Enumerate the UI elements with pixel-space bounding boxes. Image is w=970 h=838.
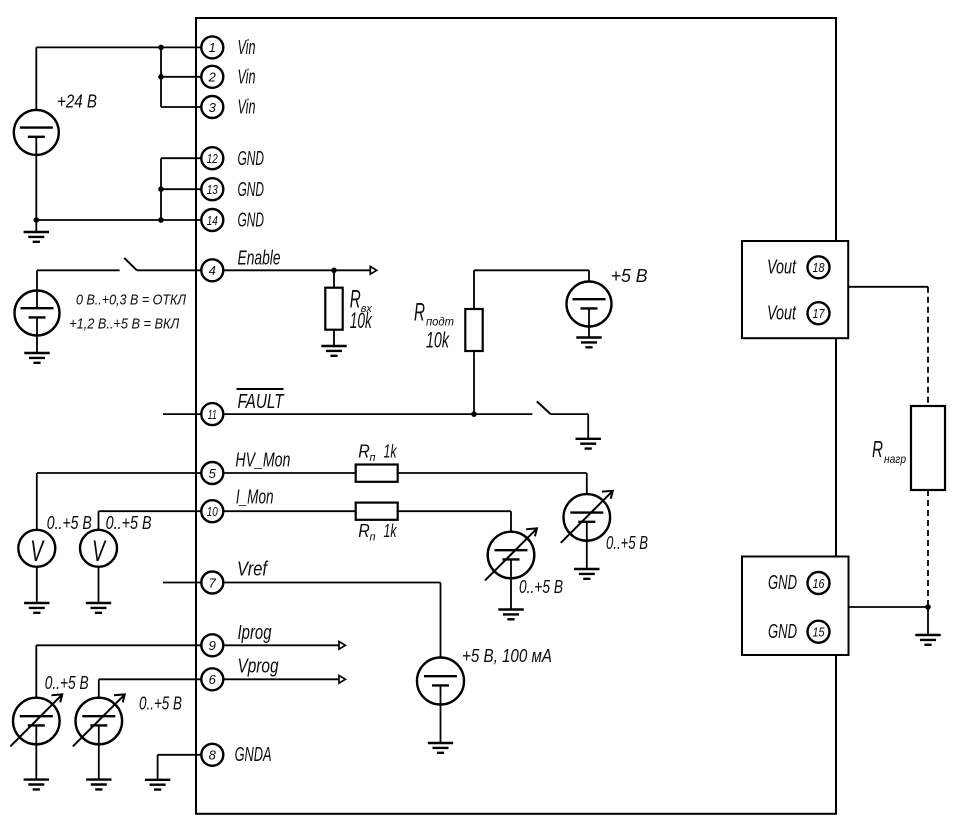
- resistor Rpodt 10k: [414, 299, 483, 353]
- Vout terminal box: [742, 241, 848, 338]
- svg-text:10: 10: [207, 504, 219, 519]
- ground under +24V source: [24, 232, 49, 242]
- pin 12 GND: [201, 147, 264, 170]
- resistor Rvx 10k: [325, 286, 372, 334]
- wire enable source bottom to ground: [36, 317, 38, 353]
- svg-text:GND: GND: [768, 572, 797, 594]
- node junction load ground: [925, 604, 931, 610]
- svg-text:FAULT: FAULT: [238, 391, 285, 413]
- wire Rvx to ground: [333, 330, 335, 346]
- svg-text:0 В..+0,3 В = ОТКЛ: 0 В..+0,3 В = ОТКЛ: [76, 291, 187, 308]
- svg-text:+1,2 В..+5 В = ВКЛ: +1,2 В..+5 В = ВКЛ: [69, 315, 180, 332]
- svg-text:9: 9: [209, 638, 216, 653]
- wire FAULT switch to ground: [551, 414, 589, 439]
- svg-text:1k: 1k: [384, 442, 398, 462]
- svg-text:0..+5 В: 0..+5 В: [139, 694, 182, 714]
- ground under Rvx: [321, 346, 346, 356]
- pin 9 Iprog: [201, 622, 271, 657]
- svg-text:Vin: Vin: [238, 66, 256, 88]
- pin 4 Enable: [201, 248, 280, 282]
- wire Rpodt bottom to FAULT net: [473, 351, 475, 414]
- pin 3 Vin: [201, 96, 255, 119]
- wire adjustable Vprog source to ground: [98, 725, 100, 779]
- pin 13 GND: [201, 178, 264, 201]
- dashed wire load upper: [927, 287, 929, 406]
- wire GNDA to ground: [158, 755, 202, 780]
- resistor Rnagr load: [872, 406, 945, 490]
- wire pullup top rail: [474, 270, 589, 309]
- svg-text:Vout: Vout: [767, 256, 797, 278]
- svg-text:нагр: нагр: [884, 452, 906, 466]
- switch S2 blade: [537, 401, 551, 414]
- pin 5 HV_Mon: [201, 449, 290, 484]
- wire HV_Mon to Rp1: [223, 472, 355, 474]
- ground under V1: [24, 603, 49, 613]
- svg-text:Vin: Vin: [238, 97, 256, 119]
- svg-text:5: 5: [209, 466, 217, 481]
- svg-text:GND: GND: [238, 148, 265, 170]
- voltage source +5 V pullup: [567, 266, 648, 327]
- svg-text:1: 1: [209, 40, 216, 55]
- arrow Iprog out: [339, 642, 345, 650]
- wire adjustable I source to ground: [510, 559, 512, 609]
- svg-text:14: 14: [207, 213, 218, 228]
- svg-text:0..+5 В: 0..+5 В: [519, 577, 563, 597]
- svg-text:Vprog: Vprog: [238, 656, 279, 678]
- wire I_Mon to Rp2: [223, 510, 355, 512]
- arrow Vprog out: [339, 676, 345, 684]
- ground under enable source: [24, 353, 49, 363]
- wire GND box to load ground: [849, 607, 929, 635]
- svg-text:18: 18: [813, 260, 826, 275]
- wire switch to pin 4: [137, 269, 202, 271]
- wire Iprog to adjustable source 3: [36, 645, 202, 717]
- svg-text:6: 6: [209, 672, 217, 687]
- pin 7 Vref: [201, 558, 269, 593]
- pin 16 GND: [768, 572, 830, 594]
- wire I_Mon to voltmeter V2: [99, 511, 202, 530]
- svg-text:15: 15: [813, 625, 826, 640]
- wire +24V bottom to GND bus: [36, 137, 202, 232]
- svg-text:Vout: Vout: [767, 302, 797, 324]
- wire Vprog to arrow: [223, 678, 339, 680]
- wire Rp1 to adjustable source: [398, 473, 587, 514]
- svg-text:Iprog: Iprog: [238, 622, 272, 644]
- svg-text:HV_Mon: HV_Mon: [235, 449, 290, 471]
- pin 8 GNDA: [201, 744, 271, 766]
- svg-text:0..+5 В: 0..+5 В: [606, 533, 648, 553]
- voltmeter V1: [18, 513, 92, 568]
- pin 14 GND: [201, 209, 264, 232]
- voltmeter V2: [80, 513, 152, 568]
- svg-text:0..+5 В: 0..+5 В: [47, 513, 92, 533]
- node junction Vin bus pin2: [158, 74, 164, 80]
- ground under V2: [86, 603, 111, 613]
- svg-text:V: V: [30, 535, 45, 568]
- IC body U1: [196, 18, 836, 814]
- wire Vref to +5V 100mA source: [223, 583, 440, 677]
- svg-text:V: V: [92, 535, 107, 568]
- adjustable source 0..+5V for HV_Mon: [561, 491, 648, 553]
- svg-text:+5 В, 100 мА: +5 В, 100 мА: [462, 646, 552, 666]
- node junction Rpodt FAULT: [471, 411, 477, 417]
- svg-text:GNDA: GNDA: [235, 744, 272, 766]
- svg-text:1k: 1k: [384, 521, 398, 541]
- svg-text:0..+5 В: 0..+5 В: [106, 513, 152, 533]
- svg-text:I_Mon: I_Mon: [236, 487, 274, 509]
- svg-text:Vref: Vref: [237, 558, 269, 580]
- GND terminal box: [742, 557, 849, 656]
- pin 1 Vin: [201, 36, 255, 59]
- wire V1 to ground: [36, 567, 38, 603]
- svg-text:п: п: [370, 531, 376, 543]
- svg-text:+24 В: +24 В: [57, 91, 97, 111]
- svg-text:2: 2: [208, 70, 217, 85]
- svg-text:GND: GND: [238, 179, 265, 201]
- wire V2 to ground: [98, 567, 100, 603]
- pin 2 Vin: [201, 66, 255, 89]
- svg-text:R: R: [358, 521, 370, 541]
- svg-text:Enable: Enable: [238, 248, 281, 270]
- svg-text:GND: GND: [238, 210, 265, 232]
- wire Vout to load: [848, 286, 928, 288]
- node junction GND bus pin13: [158, 186, 164, 192]
- switch S1 blade: [124, 258, 137, 270]
- wire Enable net to arrow: [223, 269, 370, 271]
- svg-text:13: 13: [207, 182, 219, 197]
- wire adjustable Iprog source to ground: [35, 725, 37, 779]
- svg-text:+5 В: +5 В: [611, 266, 648, 286]
- wire +5V 100mA source to ground: [440, 685, 442, 743]
- ground under +5V source: [576, 338, 601, 348]
- node junction GND bus pin14: [158, 217, 164, 223]
- wire Iprog to arrow: [223, 644, 339, 646]
- pin 17 Vout: [767, 302, 830, 324]
- dashed wire load lower: [927, 490, 929, 607]
- ground under adjustable I source: [498, 610, 523, 620]
- ground under +5V 100mA source: [428, 743, 453, 753]
- FAULT overline: [237, 388, 284, 390]
- pin 10 I_Mon: [201, 487, 273, 523]
- svg-text:17: 17: [813, 306, 826, 321]
- adjustable source 0..+5V for Iprog: [10, 673, 88, 746]
- pin 15 GND: [768, 621, 830, 643]
- voltage source enable control: [15, 291, 60, 336]
- ground under adjustable Vprog source: [86, 780, 111, 790]
- node junction Vin bus pin1: [158, 45, 164, 51]
- svg-text:подт: подт: [426, 315, 454, 329]
- ground under FAULT switch: [576, 439, 601, 449]
- ground under adjustable HV source: [574, 569, 599, 579]
- arrow Enable out: [370, 267, 376, 275]
- svg-text:Vin: Vin: [238, 37, 256, 59]
- node junction source ground: [34, 217, 40, 223]
- wire +24V top to Vin bus: [36, 47, 202, 127]
- svg-text:R: R: [872, 436, 883, 462]
- svg-text:4: 4: [209, 263, 216, 278]
- svg-text:3: 3: [209, 100, 217, 115]
- ground under load: [915, 635, 940, 645]
- wire FAULT left stub: [163, 413, 202, 415]
- wire Vprog to adjustable source 4: [99, 679, 202, 717]
- pin 6 Vprog: [201, 656, 278, 691]
- resistor Rp 1k lower: [356, 503, 398, 544]
- ground under GNDA: [145, 780, 170, 790]
- voltage source +5 V 100 mA: [417, 646, 552, 705]
- svg-text:R: R: [414, 299, 425, 327]
- pin 18 Vout: [767, 256, 830, 278]
- adjustable source 0..+5V for Vprog: [73, 694, 182, 747]
- wire Rp2 to adjustable source: [398, 511, 511, 551]
- svg-text:10k: 10k: [426, 328, 450, 353]
- svg-text:11: 11: [208, 407, 217, 422]
- svg-text:R: R: [358, 442, 370, 462]
- wire enable source to switch: [37, 270, 120, 308]
- wire HV_Mon to voltmeter V1: [37, 473, 202, 530]
- adjustable source 0..+5V for I_Mon: [485, 528, 563, 597]
- svg-text:7: 7: [209, 575, 217, 590]
- wire adjustable HV source to ground: [586, 522, 588, 569]
- svg-text:16: 16: [813, 576, 826, 591]
- svg-text:8: 8: [209, 748, 217, 763]
- wire Enable to Rvx: [333, 270, 335, 287]
- svg-text:п: п: [370, 452, 376, 464]
- svg-text:0..+5 В: 0..+5 В: [45, 673, 89, 693]
- wire FAULT net: [223, 413, 532, 415]
- ground under adjustable Iprog source: [24, 780, 49, 790]
- wire Vref left stub: [163, 582, 202, 584]
- node junction Enable Rvx: [331, 268, 337, 274]
- resistor Rp 1k upper: [356, 442, 398, 482]
- wire +5V source to ground: [588, 308, 590, 337]
- svg-text:10k: 10k: [350, 308, 373, 333]
- svg-text:GND: GND: [768, 621, 797, 643]
- pin 11 FAULT: [201, 391, 285, 425]
- voltage source +24 V: [14, 91, 97, 155]
- svg-text:12: 12: [207, 151, 219, 166]
